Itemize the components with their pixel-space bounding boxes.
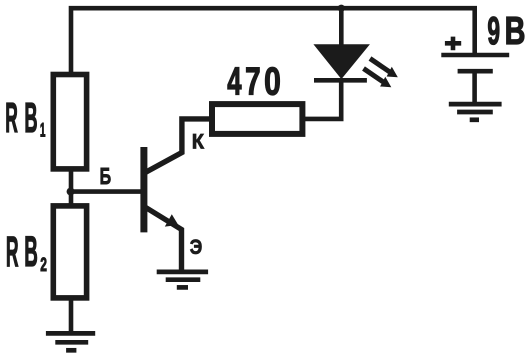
- svg-text:R: R: [5, 94, 18, 141]
- transistor Q1 collector lead: [143, 119, 210, 174]
- battery GB1 plus sign: [445, 37, 461, 51]
- svg-text:B: B: [24, 94, 37, 141]
- LED anode wire from top bus: [339, 8, 344, 46]
- node B junction dot: [67, 188, 75, 196]
- label 470: [227, 60, 281, 103]
- svg-text:0: 0: [264, 60, 281, 103]
- wire battery negative to ground: [472, 71, 477, 104]
- svg-text:R: R: [6, 228, 19, 276]
- wire RB2 bottom to ground: [69, 296, 74, 333]
- svg-text:B: B: [24, 228, 38, 276]
- wire base from node to transistor: [70, 189, 145, 194]
- resistor RB1: [53, 75, 86, 169]
- svg-text:7: 7: [245, 60, 261, 103]
- svg-text:4: 4: [227, 60, 241, 103]
- label RB2: [6, 228, 47, 276]
- svg-text:9: 9: [487, 10, 500, 53]
- label 9V: [487, 10, 525, 53]
- ground (battery): [449, 104, 502, 120]
- svg-text:Б: Б: [100, 163, 112, 189]
- LED VD1 triangle: [316, 45, 368, 77]
- svg-text:Э: Э: [190, 235, 203, 259]
- ground (left, below RB2): [46, 333, 95, 350]
- wire RB1 bottom to RB2 top: [69, 167, 74, 207]
- svg-text:К: К: [192, 130, 205, 154]
- wire top bus from RB1 top to battery: [71, 8, 475, 76]
- wire resistor right to LED cathode: [303, 80, 341, 119]
- LED emission arrow upper: [370, 59, 398, 78]
- ground (emitter): [157, 272, 208, 288]
- label RB1: [5, 94, 46, 142]
- node junction dot on top bus: [338, 5, 345, 12]
- LED VD1 cathode bar: [314, 78, 367, 83]
- resistor 470: [212, 104, 302, 134]
- svg-text:1: 1: [40, 120, 46, 141]
- svg-text:2: 2: [40, 255, 47, 276]
- battery GB1 positive plate: [441, 53, 509, 58]
- resistor RB2: [53, 206, 86, 298]
- svg-text:В: В: [505, 10, 526, 53]
- battery GB1 negative plate: [458, 69, 493, 74]
- transistor Q1 emitter lead with arrow: [143, 206, 182, 272]
- transistor Q1 base bar: [140, 147, 147, 232]
- LED emission arrow lower: [364, 69, 392, 88]
